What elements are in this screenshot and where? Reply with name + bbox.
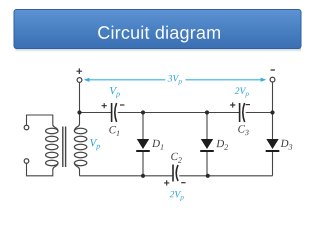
wire D3 vertical bbox=[272, 113, 274, 176]
dimension arrow 3Vp bbox=[84, 78, 267, 82]
capacitor C2 bbox=[164, 165, 186, 186]
transformer core bbox=[63, 127, 66, 168]
terminal - (input left lower) bbox=[24, 159, 29, 164]
wire primary bottom bbox=[27, 163, 53, 176]
wire top rail right segment bbox=[246, 112, 273, 114]
node C junction bbox=[205, 110, 209, 114]
label C2 bbox=[171, 153, 182, 163]
terminal - output top-right bbox=[270, 77, 275, 82]
wire bottom rail left segment bbox=[80, 175, 174, 177]
wire D2 vertical bbox=[206, 113, 208, 176]
wire top rail middle segment bbox=[118, 112, 240, 114]
label D1 bbox=[152, 140, 163, 150]
wire left vertical from + terminal bbox=[79, 82, 81, 112]
title bar shadow bbox=[16, 48, 302, 53]
wire secondary top stem bbox=[79, 113, 81, 125]
node A junction bbox=[77, 110, 81, 114]
diode D2 bbox=[200, 139, 214, 152]
transformer T1 bbox=[46, 124, 87, 170]
wire D1 vertical bbox=[142, 113, 144, 176]
wire primary top bbox=[27, 115, 53, 125]
label 2Vp top bbox=[235, 87, 249, 97]
node E junction bbox=[141, 174, 145, 178]
wire right vertical from - terminal bbox=[272, 82, 274, 112]
node B junction bbox=[141, 110, 145, 114]
label Vp secondary bbox=[90, 139, 100, 150]
wire bottom rail right segment bbox=[179, 175, 272, 177]
capacitor C1 bbox=[102, 103, 125, 122]
secondary coil bbox=[74, 124, 79, 131]
label D3 bbox=[280, 140, 292, 150]
label 3Vp bbox=[168, 75, 182, 85]
primary coil bbox=[53, 125, 58, 132]
label C3 bbox=[238, 125, 248, 135]
label Vp bbox=[110, 87, 120, 98]
capacitor C3 bbox=[230, 102, 250, 122]
label D2 bbox=[216, 140, 228, 150]
node D junction bbox=[270, 110, 274, 114]
label C1 bbox=[109, 126, 119, 136]
diode D1 bbox=[136, 139, 150, 152]
wire secondary bottom stem bbox=[79, 170, 81, 176]
node F junction bbox=[206, 174, 210, 178]
minus sign output bbox=[271, 69, 275, 71]
wire top rail left segment bbox=[80, 112, 112, 114]
title text bbox=[98, 26, 220, 43]
diode D3 bbox=[266, 139, 280, 152]
title bar bbox=[14, 10, 301, 49]
terminal + (input left) bbox=[24, 125, 29, 130]
terminal + output top-left bbox=[77, 78, 82, 83]
plus sign output bbox=[77, 68, 83, 74]
label 2Vp bottom bbox=[170, 191, 184, 201]
